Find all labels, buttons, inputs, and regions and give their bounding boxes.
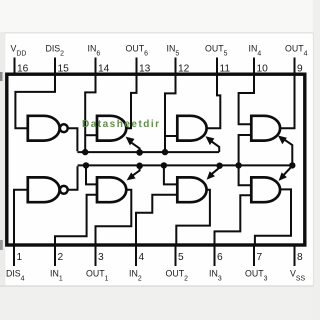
pin 14 stub <box>95 58 97 74</box>
wire IN5 pin12 down to node B <box>165 75 176 152</box>
wire OUT5 buffer B5 output to pin11 <box>207 75 221 128</box>
lower bus (DIS4 net) <box>78 164 293 166</box>
arrow shaft to buffer B4 from lower bus <box>282 138 293 166</box>
junction dot lower bus arrow B2 <box>216 163 222 169</box>
pin name labels bottom: DIS4 IN1 OUT1 IN2 OUT2 IN3 OUT3 VSS <box>6 269 305 283</box>
arrow shaft to buffer B3 lower <box>284 166 293 175</box>
pin 3 stub <box>95 247 97 267</box>
junction dot node A upper bus <box>82 149 88 155</box>
buffer B3 body <box>251 177 280 202</box>
inverter U2 (DIS4) input wire from pin1 <box>14 190 27 247</box>
inverter U1 output to upper bus <box>68 128 77 151</box>
arrowhead at buffer B6 output <box>126 137 135 146</box>
buffer B2 body <box>177 177 206 202</box>
svg-text:9: 9 <box>297 64 303 75</box>
pin 13 stub <box>136 58 138 74</box>
buffer B4 body <box>251 116 280 141</box>
buffer B5 body <box>177 116 206 141</box>
wire IN4 pin10 into buffer B4 input <box>239 75 254 124</box>
pin 4 stub <box>135 247 137 267</box>
svg-text:3: 3 <box>98 252 104 263</box>
svg-text:12: 12 <box>178 64 190 75</box>
pin 6 stub <box>214 247 216 267</box>
svg-text:16: 16 <box>17 64 29 75</box>
wire OUT4 buffer B4 output to pin9 <box>280 75 295 128</box>
wire disable into buffer B2 upper input <box>164 165 177 184</box>
junction dot node B upper bus <box>162 149 168 155</box>
pin 10 stub <box>253 58 255 74</box>
arrow shaft to buffer B2 <box>212 166 220 174</box>
svg-text:15: 15 <box>58 64 70 75</box>
wire IN1 pin2 to buffer B1 input <box>55 195 97 247</box>
junction dot upper bus arrow B6 <box>136 149 143 156</box>
arrow shaft to buffer B1 <box>132 166 139 176</box>
svg-text:13: 13 <box>139 64 151 75</box>
wire node A branch into buffer B6 input <box>85 134 96 136</box>
wire node B branch into buffer B5 input <box>165 135 177 137</box>
wire disable into buffer B3 upper input <box>239 165 252 185</box>
wire disable into buffer B1 upper input <box>86 165 97 184</box>
pin 12 stub <box>175 58 177 74</box>
wire IN2 pin4 to buffer B2 input <box>136 195 177 247</box>
scan background margins <box>0 0 320 33</box>
junction dot lower bus end <box>289 162 295 168</box>
arrowhead at buffer B1 output <box>127 172 136 180</box>
svg-text:14: 14 <box>98 64 110 75</box>
pin 16 stub <box>14 58 16 74</box>
junction dot lower bus B3/B4 disable <box>235 162 241 168</box>
pin name labels top: VDD DIS2 IN6 OUT6 IN5 OUT5 IN4 OUT4 <box>11 44 308 58</box>
pin 7 stub <box>253 247 255 267</box>
arrow shaft to buffer B5 <box>209 140 219 153</box>
svg-text:10: 10 <box>257 64 269 75</box>
svg-text:6: 6 <box>217 252 223 263</box>
buffer B6 body <box>97 116 126 141</box>
buffer B1 body <box>97 177 126 202</box>
inverter U2 (DIS4) body <box>28 177 60 202</box>
pin 2 stub <box>54 247 56 267</box>
junction dot lower bus B2 disable <box>161 162 167 168</box>
svg-text:1: 1 <box>17 252 23 263</box>
arrow shaft to buffer B6 <box>129 141 140 152</box>
svg-text:5: 5 <box>178 252 184 263</box>
inverter U2 output to lower bus <box>68 166 78 190</box>
pin 5 stub <box>175 247 177 267</box>
wire disable into buffer B4 lower input <box>239 135 252 164</box>
wire OUT6 buffer B6 output to pin13 <box>126 75 137 128</box>
wire DIS2 pin15 to inverter U1 input <box>15 75 55 128</box>
inverter U2 bubble <box>60 186 68 194</box>
pin 11 stub <box>216 58 218 74</box>
inverter U1 (DIS2) body <box>28 116 60 141</box>
wire IN3 pin6 to buffer B3 input <box>215 195 252 246</box>
svg-text:8: 8 <box>297 252 303 263</box>
svg-text:7: 7 <box>257 252 263 263</box>
pin 1 stub <box>13 247 15 267</box>
upper bus (DIS2 net) <box>77 151 219 153</box>
arrowhead at buffer B4 output <box>278 136 287 145</box>
svg-text:2: 2 <box>58 252 64 263</box>
svg-text:11: 11 <box>220 64 231 75</box>
junction dot lower bus B1 disable <box>83 162 89 168</box>
pin 8 stub <box>294 247 296 267</box>
inverter U1 bubble <box>60 124 68 132</box>
arrowhead at buffer B3 output <box>279 172 287 181</box>
junction dot lower bus arrow B1 <box>136 163 143 170</box>
IC package outline box <box>7 74 305 245</box>
svg-text:4: 4 <box>139 252 145 263</box>
wire IN6 pin14 down to node A <box>85 75 95 152</box>
pin 15 stub <box>54 58 56 74</box>
wire OUT2 buffer B2 output to pin5 <box>176 190 210 247</box>
pin numbers 16-9 (top) and 1-8 (bottom) <box>17 64 304 264</box>
pin 9 stub <box>294 58 296 74</box>
wire OUT3 buffer B3 output to pin7 <box>255 189 291 246</box>
arrowhead at buffer B5 output <box>206 136 215 145</box>
svg-text:Datasheetdir: Datasheetdir <box>82 119 161 130</box>
wire OUT1 buffer B1 output to pin3 <box>96 190 132 247</box>
arrowhead at buffer B2 output <box>207 171 215 180</box>
